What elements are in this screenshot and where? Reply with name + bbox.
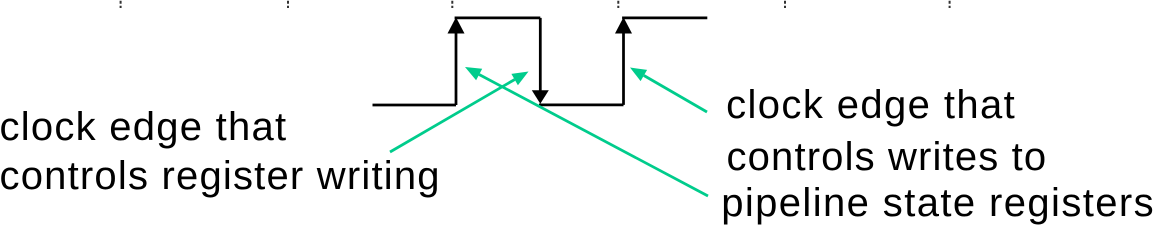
wire clock falling edge stem <box>539 18 542 92</box>
dotted tick 6 <box>949 1 951 8</box>
green arrowhead C <box>630 68 647 82</box>
caption left line 1: clock edge that <box>0 107 287 147</box>
caption right line 1: clock edge that <box>726 85 1016 125</box>
green callout line C (from right caption to rising edge 2) <box>644 76 707 113</box>
arrowhead falling edge <box>532 90 549 104</box>
dotted tick 4 <box>617 1 619 8</box>
green callout line B (from rising edge 1 to pipeline caption) <box>479 75 708 197</box>
green callout line A (from left caption to falling-edge region) <box>390 80 515 153</box>
dotted tick 5 <box>784 1 786 8</box>
dotted tick 1 <box>120 1 122 8</box>
wire clock rising edge 1 stem <box>455 30 458 105</box>
green arrowhead A <box>511 72 528 86</box>
arrowhead rising edge 2 <box>615 17 632 33</box>
green arrowhead B <box>465 67 482 80</box>
arrowhead rising edge 1 <box>448 17 465 33</box>
dotted tick 3 <box>451 1 453 8</box>
wire clock low segment 2 <box>539 104 624 107</box>
wire clock high segment 1 <box>455 17 541 20</box>
caption left line 2: controls register writing <box>0 156 441 196</box>
wire clock high segment 2 <box>622 17 707 20</box>
wire clock rising edge 2 stem <box>622 30 625 105</box>
caption right line 3: pipeline state registers <box>721 183 1154 223</box>
caption right line 2: controls writes to <box>727 137 1048 177</box>
wire clock low segment 1 <box>373 104 457 107</box>
dotted tick 2 <box>287 1 289 8</box>
